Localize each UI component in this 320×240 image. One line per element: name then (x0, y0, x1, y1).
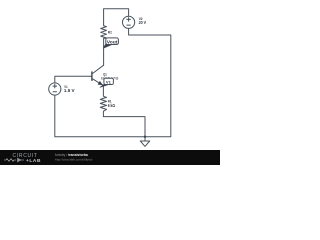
ground (140, 141, 149, 146)
label V2 20 V (139, 16, 147, 25)
resistor R2 (101, 26, 107, 39)
emitter diagonal (92, 79, 103, 97)
wire V1 bottom to ground junction (55, 95, 145, 137)
wire top from R2 to V2 (104, 9, 129, 26)
resistor R1 (100, 96, 106, 111)
svg-text:http://circuitlab.com/c6kpxd: http://circuitlab.com/c6kpxd (55, 158, 93, 162)
svg-text:+LAB: +LAB (26, 158, 41, 164)
wire V1 top to base (55, 76, 92, 83)
wire V2 bottom to right rail (129, 28, 171, 136)
label R1 6 kOhm (108, 98, 116, 108)
svg-text:20 V: 20 V (139, 20, 147, 25)
base bar (91, 71, 93, 81)
transistor Q1 (92, 65, 104, 96)
svg-text:R2: R2 (108, 29, 112, 34)
voltage source V2 (123, 16, 135, 28)
svg-text:fortoby / transistorba: fortoby / transistorba (55, 153, 88, 157)
svg-text:Vout: Vout (107, 39, 118, 44)
watermark text (55, 153, 93, 162)
collector diagonal (92, 65, 103, 73)
voltage source V1 (49, 83, 61, 95)
label V1 1.5 V (64, 84, 75, 93)
svg-text:6 kΩ: 6 kΩ (108, 103, 116, 108)
emitter arrowhead (98, 81, 103, 85)
svg-text:1.5 V: 1.5 V (64, 88, 75, 93)
logo CIRCUIT LAB (4, 153, 41, 164)
junction dot (144, 136, 146, 138)
wire collector lead (103, 38, 105, 65)
watermark bar (0, 150, 220, 165)
node flag Vout (103, 38, 118, 48)
node flag V1 (net label at emitter) (100, 78, 113, 87)
wire R1 bottom to ground junction (103, 111, 145, 141)
svg-text:V1: V1 (106, 80, 112, 85)
